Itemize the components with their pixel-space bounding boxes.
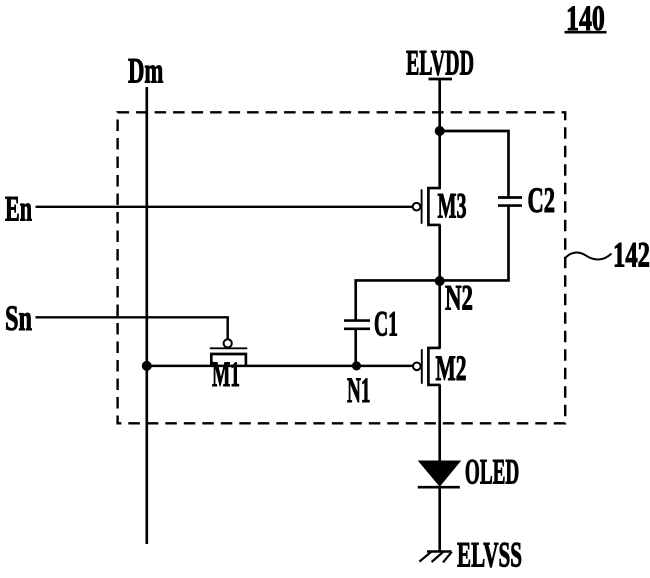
squiggle leader to label 142 bbox=[565, 253, 612, 260]
svg-text:M3: M3 bbox=[438, 187, 467, 227]
transistor M3 (PMOS, channel bracket) bbox=[413, 188, 441, 225]
pixel circuit boundary 142 (dashed box) bbox=[118, 112, 566, 423]
capacitor C2 bbox=[498, 198, 522, 206]
capacitor C1 bbox=[344, 321, 370, 329]
label 140 (figure reference, underlined) bbox=[565, 0, 607, 38]
wire node N2 to C1 top bbox=[356, 280, 440, 319]
svg-text:OLED: OLED bbox=[465, 452, 519, 492]
wire OLED cathode to ELVSS ground bbox=[438, 487, 441, 552]
svg-text:C1: C1 bbox=[374, 304, 398, 344]
node N1 junction dot bbox=[352, 361, 361, 370]
node dot on Dm at N1 wire bbox=[142, 361, 152, 371]
svg-text:C2: C2 bbox=[528, 181, 556, 221]
transistor M2 (PMOS, channel bracket) bbox=[413, 348, 441, 385]
svg-text:M1: M1 bbox=[212, 355, 240, 395]
svg-text:M2: M2 bbox=[436, 350, 467, 389]
node A junction dot (ELVDD rail split) bbox=[435, 126, 445, 136]
ELVDD terminal bar bbox=[429, 78, 453, 81]
svg-text:Sn: Sn bbox=[5, 298, 32, 338]
wire C2 bottom to node N2 bbox=[440, 207, 509, 281]
wire node A to M3 source bbox=[438, 131, 441, 189]
svg-text:N2: N2 bbox=[445, 277, 473, 318]
wire M3 drain to node N2 bbox=[438, 225, 441, 281]
wire En to M3 gate bbox=[36, 206, 413, 208]
diode OLED (filled triangle anode) bbox=[419, 461, 460, 486]
svg-text:N1: N1 bbox=[347, 371, 370, 411]
ground ELVSS symbol bbox=[419, 552, 451, 563]
transistor M1 (PMOS, gate on top) bbox=[210, 339, 248, 366]
wire Dm data line vertical bbox=[145, 87, 148, 544]
svg-text:142: 142 bbox=[613, 235, 650, 275]
svg-text:En: En bbox=[5, 189, 32, 229]
wire C1 bottom to node N1 bbox=[354, 330, 357, 366]
wire ELVDD vertical to node A bbox=[438, 79, 441, 132]
diode OLED cathode bar bbox=[418, 486, 460, 489]
svg-text:ELVDD: ELVDD bbox=[406, 44, 474, 84]
wire M2 drain to OLED anode bbox=[438, 385, 441, 462]
node N2 junction dot bbox=[435, 276, 445, 286]
wire N2 to M2 source bbox=[438, 281, 441, 348]
svg-text:Dm: Dm bbox=[128, 50, 163, 91]
wire N1 row (Dm node through M1 to M2 gate) bbox=[147, 365, 413, 367]
svg-text:ELVSS: ELVSS bbox=[457, 536, 522, 575]
wire node A to C2 top branch bbox=[440, 131, 509, 197]
wire Sn horizontal and drop to M1 gate bbox=[36, 317, 228, 339]
